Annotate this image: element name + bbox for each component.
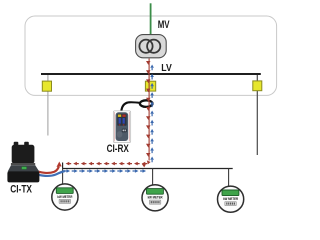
right fuse (yellow square) [253,81,262,91]
svg-text:CI-TX: CI-TX [10,184,32,196]
CI-TX red test lead with up arrowhead [34,167,59,173]
svg-text:kW METER: kW METER [57,195,72,199]
service drop wire to M1 [62,169,64,184]
transformer T1 (MV/LV) [136,35,167,58]
LV bus bar line [41,73,261,75]
service drop wire to M3 [228,169,230,187]
wire: red signal rail down (transformer to LV bus) [148,59,150,161]
node: CI-TX injection point [62,163,64,169]
red down arrowheads on vertical signal path [146,61,151,157]
substation enclosure boundary box [25,16,277,95]
MV feeder line (green) [150,3,152,35]
CI-RX receiver handheld [113,111,130,143]
energy meter M2 [142,185,168,211]
CI-RX probe cable [121,102,140,111]
CI-TX transmitter case [7,142,39,183]
left fuse (yellow square) [42,81,51,91]
CI-TX blue test lead [33,171,65,176]
svg-text:MV: MV [158,19,170,31]
svg-text:CI-RX: CI-RX [107,143,130,155]
center fuse (yellow square) on signal path [145,81,155,91]
right feeder drop wire [256,75,258,155]
CI-TX status LED (green) [22,167,27,170]
blue right arrowheads on horizontal signal path [67,169,147,172]
svg-text:LV: LV [161,63,172,74]
svg-text:kW METER: kW METER [223,197,238,201]
CI-RX inductive clamp around signal wire [140,100,153,107]
service drop wire to M2 [152,169,154,185]
red left arrow dashes on horizontal signal path [66,162,146,166]
blue up arrowheads on vertical signal path [150,65,154,160]
LV service line (bottom bus) [62,168,232,170]
energy meter M3 [218,186,244,212]
svg-text:kW METER: kW METER [148,196,163,200]
left feeder drop wire [47,75,49,136]
energy meter M1 [52,184,78,210]
